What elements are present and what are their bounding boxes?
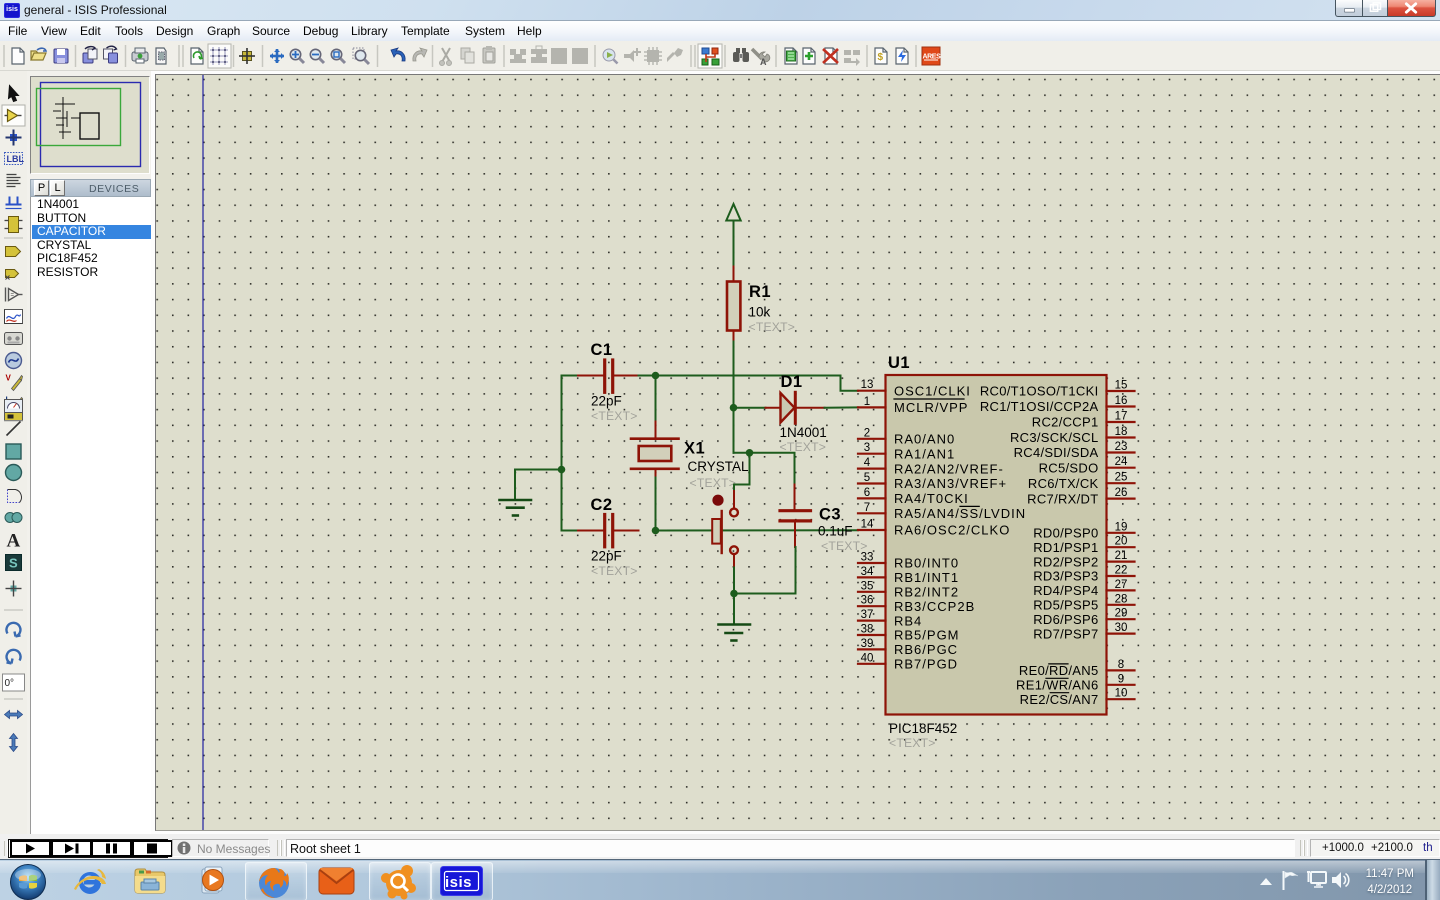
pin 2 (RA0/AN0) (858, 427, 955, 446)
X1 property text (690, 476, 737, 490)
pin 9 (RE1/WR/AN6) (1016, 673, 1134, 692)
wire button bottom to node D (733, 568, 735, 594)
wire node D to ground (733, 594, 735, 625)
ground symbol left (500, 500, 532, 516)
wire VCC to R1 pin (733, 267, 735, 283)
pin 5 (RA3/AN3/VREF+) (858, 472, 1007, 491)
pin 19 (RD0/PSP0) (1033, 521, 1134, 540)
pin 15 (RC0/T1OSO/T1CKI) (980, 380, 1135, 399)
wire left rail to C1 (562, 375, 579, 377)
pin 10 (RE2/CS/AN7) (1020, 688, 1135, 707)
ground symbol bottom (719, 625, 751, 641)
R1 property text (749, 320, 796, 334)
wire node D1 to diode anode (734, 407, 766, 409)
wire R1 to node D1 (crosses C1 net) (733, 342, 735, 453)
power symbol VCC (726, 204, 740, 267)
capacitor C1 (578, 360, 639, 392)
wire node A down to crystal X1 (655, 376, 657, 422)
label U1 (888, 354, 910, 372)
pin 25 (RC6/TX/CK) (1028, 472, 1135, 491)
svg-text:0°: 0° (5, 678, 15, 689)
pin 33 (RB0/INT0) (858, 552, 959, 571)
pin 22 (RD3/PSP3) (1033, 565, 1134, 584)
pin 17 (RC2/CCP1) (1032, 411, 1135, 430)
pin 35 (RB2/INT2) (858, 580, 959, 599)
label D1 (781, 373, 803, 391)
wire node B to RA6 pin 14 (656, 529, 859, 531)
overline MCLR/VPP (894, 398, 964, 400)
wire diode cathode to MCLR pin 1 (825, 406, 859, 408)
R1 value 10k (749, 305, 771, 320)
svg-text:ARES: ARES (923, 54, 942, 61)
U1 value PIC18F452 (889, 721, 957, 736)
pin 13 (OSC1/CLKI) (858, 379, 971, 398)
junction node C (C3 top net) (746, 449, 754, 457)
pin 4 (RA2/AN2/VREF-) (858, 457, 1004, 476)
svg-text:S: S (9, 556, 18, 571)
pin 7 (RA5/AN4/SS/LVDIN) (858, 502, 1026, 521)
pin 20 (RD1/PSP1) (1033, 536, 1134, 555)
pin 34 (RB1/INT1) (858, 566, 959, 585)
wire node D1 down to node C (734, 453, 795, 485)
pin 38 (RB5/PGM) (858, 624, 960, 643)
wire left rail vertical (561, 376, 563, 531)
U1 right pin stubs and numbers (980, 380, 1135, 707)
button S1 state indicator (712, 495, 723, 506)
pin 27 (RD4/PSP4) (1033, 579, 1134, 598)
wire X1 to node B (655, 478, 657, 531)
overline RD (pin 8) (1049, 663, 1068, 665)
pin 26 (RC7/RX/DT) (1027, 487, 1134, 506)
U1 left pin stubs and numbers (858, 379, 1026, 671)
label C2 (591, 496, 613, 514)
junction node A (C1/X1/OSC1 net) (652, 372, 660, 380)
resistor R1 (727, 282, 740, 342)
C2 value 22pF (591, 549, 622, 564)
svg-text:LBL: LBL (7, 154, 25, 164)
pin 16 (RC1/T1OSI/CCP2A) (980, 395, 1135, 414)
junction node D (button/C3 bottom/ground) (730, 590, 738, 598)
wire node GND-left to ground (515, 470, 562, 500)
pin 24 (RC5/SDO) (1039, 456, 1135, 475)
wire node A to OSC1 corner (656, 376, 859, 391)
junction node B (C2/X1/RA6 net) (652, 527, 660, 535)
C1 value 22pF (591, 394, 622, 409)
pin 3 (RA1/AN1) (858, 442, 955, 461)
pin 28 (RD5/PSP5) (1033, 593, 1134, 612)
wire node D to C3 bottom (734, 547, 796, 594)
pin 14 (RA6/OSC2/CLKO) (858, 519, 1010, 538)
pin 8 (RE0/RD/AN5) (1019, 659, 1135, 678)
capacitor C3 (780, 485, 811, 548)
pin 1 (MCLR/VPP) (858, 396, 968, 415)
IC U1 PIC18F452 body (886, 375, 1107, 715)
svg-text:=: = (11, 293, 15, 299)
label X1 (684, 440, 705, 458)
pin 29 (RD6/PSP6) (1033, 608, 1134, 627)
svg-text:$: $ (878, 52, 884, 63)
overline CS (pin 10) (1050, 692, 1068, 694)
pin 39 (RB6/PGC) (858, 638, 958, 657)
label R1 (749, 283, 771, 301)
D1 value 1N4001 (780, 425, 827, 440)
pin 18 (RC3/SCK/SCL) (1010, 426, 1135, 445)
push button (712, 491, 738, 568)
pin 23 (RC4/SDI/SDA) (1014, 441, 1135, 460)
pin 37 (RB4) (858, 609, 922, 628)
pin 21 (RD2/PSP2) (1033, 550, 1134, 569)
U1 property text (889, 736, 936, 750)
C1 property text (591, 409, 638, 423)
pin 40 (RB7/PGD) (858, 652, 958, 671)
diode D1 (766, 392, 825, 423)
svg-text:V: V (6, 374, 12, 383)
wire left rail to C2 (562, 530, 579, 532)
wire C1 to node A (639, 375, 656, 377)
svg-text:A: A (760, 57, 767, 67)
wire node C zigzag to button top (734, 453, 750, 491)
crystal X1 (631, 422, 679, 478)
pin 30 (RD7/PSP7) (1033, 622, 1134, 641)
pin 36 (RB3/CCP2B) (858, 595, 975, 614)
overline SS (pin 7) (960, 505, 979, 507)
svg-text:isis: isis (445, 874, 472, 891)
C3 value 0.1uF (818, 524, 853, 539)
junction node GND-left (558, 466, 566, 474)
overline WR (pin 9) (1046, 677, 1068, 679)
svg-text:A: A (7, 531, 21, 552)
D1 property text (780, 440, 827, 454)
junction node D1 (MCLR net) (730, 404, 738, 412)
pin 6 (RA4/T0CKI) (858, 487, 969, 506)
label C3 (819, 506, 841, 524)
C3 property text (821, 539, 868, 553)
C2 property text (591, 564, 638, 578)
capacitor C2 (578, 515, 639, 547)
X1 value CRYSTAL (688, 459, 750, 474)
label C1 (591, 341, 613, 359)
